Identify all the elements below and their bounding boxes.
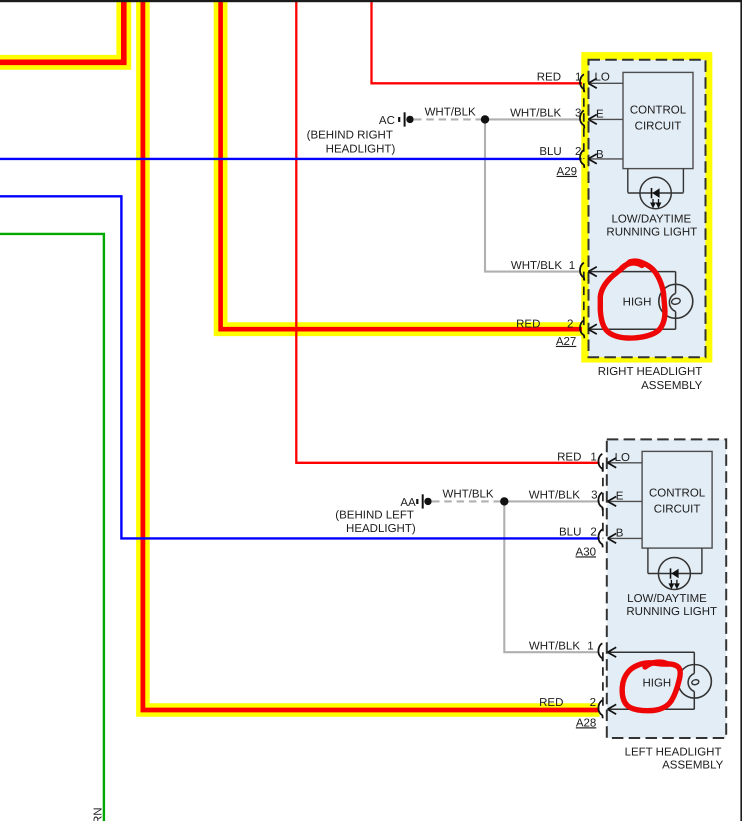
svg-text:B: B	[616, 528, 624, 540]
svg-text:RED: RED	[537, 72, 561, 84]
male terminal arrows (left block pins)	[608, 458, 617, 714]
wire YEL/RED thick (top-left, elbow to left edge)	[0, 0, 124, 62]
connector linking dashed line A27 (right)	[583, 272, 585, 330]
wire YEL/RED thick (to right headlight HIGH pin2)	[221, 0, 582, 329]
HIGH bulb loop wires (right)	[588, 272, 675, 330]
svg-text:WHT/BLK: WHT/BLK	[529, 489, 580, 501]
svg-text:HIGH: HIGH	[642, 677, 671, 689]
svg-text:E: E	[596, 109, 604, 121]
svg-text:ASSEMBLY: ASSEMBLY	[641, 380, 702, 392]
LED lamp circle (right)	[640, 177, 671, 208]
connector linking dashed line A29 (right)	[583, 83, 585, 159]
svg-text:RED: RED	[516, 318, 540, 330]
svg-text:3: 3	[575, 107, 581, 119]
wire RED (to left headlight LO pin1)	[296, 0, 599, 463]
wire WHT/BLK (junction down to pin1, left)	[504, 501, 598, 652]
female terminal braces (right block pins)	[580, 74, 584, 338]
text control circuit (left)	[649, 488, 706, 516]
text control circuit (right)	[630, 105, 687, 133]
wire BLU (to left headlight B pin2)	[0, 196, 600, 538]
right headlight assembly block: yellow highlight frame	[585, 56, 708, 358]
svg-text:WHT/BLK: WHT/BLK	[442, 489, 493, 501]
page border line right	[740, 0, 742, 821]
svg-text:2: 2	[590, 697, 596, 709]
text labels: right block wire rows	[425, 72, 582, 348]
svg-text:LOW/DAYTIME: LOW/DAYTIME	[611, 213, 691, 225]
text labels: left block pins	[615, 452, 672, 690]
svg-text:WHT/BLK: WHT/BLK	[511, 260, 562, 272]
svg-text:HIGH: HIGH	[623, 297, 652, 309]
svg-text:LEFT HEADLIGHT: LEFT HEADLIGHT	[625, 747, 722, 759]
wire GRN (left, down to bottom edge)	[0, 234, 104, 821]
male terminal arrows (right block pins)	[588, 78, 597, 334]
text low/daytime running light (left)	[626, 593, 717, 618]
left headlight assembly block: fill	[607, 439, 726, 738]
svg-text:A28: A28	[576, 717, 596, 729]
svg-text:3: 3	[591, 489, 597, 501]
page border line top	[0, 0, 742, 2]
connector AC dot	[406, 116, 413, 123]
svg-text:GRN: GRN	[93, 807, 105, 821]
svg-text:CIRCUIT: CIRCUIT	[635, 121, 682, 133]
svg-text:ASSEMBLY: ASSEMBLY	[662, 759, 723, 771]
wire WHT/BLK dashed (AC to junction, right)	[414, 118, 485, 120]
annotation: red hand-drawn loop around HIGH (right)	[600, 261, 665, 338]
HIGH bulb circle (left)	[678, 665, 712, 699]
svg-text:WHT/BLK: WHT/BLK	[529, 641, 580, 653]
svg-text:LO: LO	[615, 452, 630, 464]
svg-text:WHT/BLK: WHT/BLK	[510, 107, 561, 119]
svg-text:A29: A29	[557, 166, 577, 178]
wire WHT/BLK (junction to pin3, right)	[485, 118, 580, 120]
connector AA symbol bars	[417, 494, 422, 508]
wire WHT/BLK dashed (AA to junction, left)	[432, 500, 504, 502]
svg-text:RIGHT HEADLIGHT: RIGHT HEADLIGHT	[598, 366, 703, 378]
svg-text:WHT/BLK: WHT/BLK	[425, 107, 476, 119]
right headlight assembly block: fill	[589, 60, 706, 357]
svg-text:BLU: BLU	[539, 146, 561, 158]
svg-text:LO: LO	[595, 72, 610, 84]
svg-text:2: 2	[567, 318, 573, 330]
pin lines LO/E/B to control circuit (left)	[608, 463, 643, 539]
control circuit box U1 (right headlight)	[623, 72, 693, 168]
svg-text:A30: A30	[576, 546, 596, 558]
HIGH bulb filament ellipse (right)	[671, 297, 681, 305]
svg-text:LOW/DAYTIME: LOW/DAYTIME	[627, 593, 707, 605]
svg-text:RED: RED	[539, 697, 563, 709]
right headlight assembly block: dashed border	[589, 60, 706, 357]
svg-text:RED: RED	[557, 451, 581, 463]
connector linking dashed line A28 (left)	[602, 652, 604, 709]
svg-text:1: 1	[575, 72, 581, 84]
svg-text:HEADLIGHT): HEADLIGHT)	[326, 143, 396, 155]
text left headlight assembly	[625, 747, 724, 772]
svg-text:RUNNING LIGHT: RUNNING LIGHT	[606, 226, 697, 238]
left headlight assembly block: dashed border	[607, 439, 726, 738]
text labels: right block pins	[595, 72, 652, 309]
HIGH bulb filament ellipse (left)	[691, 679, 699, 685]
annotation: red hand-drawn loop around HIGH (left)	[622, 662, 680, 711]
text AC + behind right headlight	[307, 115, 396, 156]
svg-text:1: 1	[569, 260, 575, 272]
wire WHT/BLK (junction down to pin1, right)	[485, 119, 580, 271]
svg-text:B: B	[596, 149, 604, 161]
svg-text:AC: AC	[379, 115, 395, 127]
svg-text:HEADLIGHT): HEADLIGHT)	[346, 523, 416, 535]
connector AC symbol bars	[399, 112, 404, 126]
connector linking dashed line A30 (left)	[602, 463, 604, 539]
text labels: left block wire rows	[442, 451, 597, 729]
LED lamp circle (left)	[658, 558, 690, 590]
female terminal braces (left block pins)	[598, 454, 602, 719]
svg-text:A27: A27	[556, 336, 576, 348]
wire BLU (to right headlight B pin2)	[0, 158, 582, 160]
control circuit box U2 (left headlight)	[642, 451, 712, 548]
svg-text:CONTROL: CONTROL	[649, 488, 706, 500]
connector AA dot	[424, 498, 431, 505]
svg-text:CONTROL: CONTROL	[630, 105, 687, 117]
svg-text:CIRCUIT: CIRCUIT	[654, 504, 701, 516]
junction dot (left WHT/BLK)	[500, 497, 508, 505]
svg-text:(BEHIND RIGHT: (BEHIND RIGHT	[307, 130, 393, 142]
svg-text:2: 2	[590, 527, 596, 539]
svg-text:AA: AA	[400, 497, 416, 509]
pin lines LO/E/B to control circuit (right)	[588, 83, 623, 159]
svg-text:1: 1	[587, 641, 593, 653]
svg-text:RUNNING LIGHT: RUNNING LIGHT	[626, 606, 717, 618]
wire RED (to right headlight LO pin1)	[372, 0, 583, 83]
wire YEL/RED thick (to left headlight HIGH pin2)	[143, 0, 600, 710]
LED symbol (right): line, cathode bar, triangle, emission arrows	[628, 192, 684, 194]
LED lamp bracket (right low/daytime running light)	[628, 169, 684, 193]
HIGH bulb circle (right)	[659, 284, 693, 318]
svg-text:BLU: BLU	[559, 527, 581, 539]
wire WHT/BLK (junction to pin3, left)	[504, 500, 600, 502]
text AA + behind left headlight	[335, 497, 416, 535]
svg-text:(BEHIND LEFT: (BEHIND LEFT	[335, 509, 414, 521]
text low/daytime running light (right)	[606, 213, 697, 238]
svg-text:1: 1	[590, 451, 596, 463]
svg-text:E: E	[616, 491, 624, 503]
HIGH bulb loop wires (left)	[608, 652, 695, 709]
LED symbol (left): line, cathode bar, triangle, emission arrows	[648, 573, 702, 575]
text right headlight assembly	[598, 366, 703, 392]
svg-text:2: 2	[575, 146, 581, 158]
LED lamp bracket (left low/daytime running light)	[648, 548, 702, 573]
junction dot (right WHT/BLK)	[481, 115, 489, 123]
